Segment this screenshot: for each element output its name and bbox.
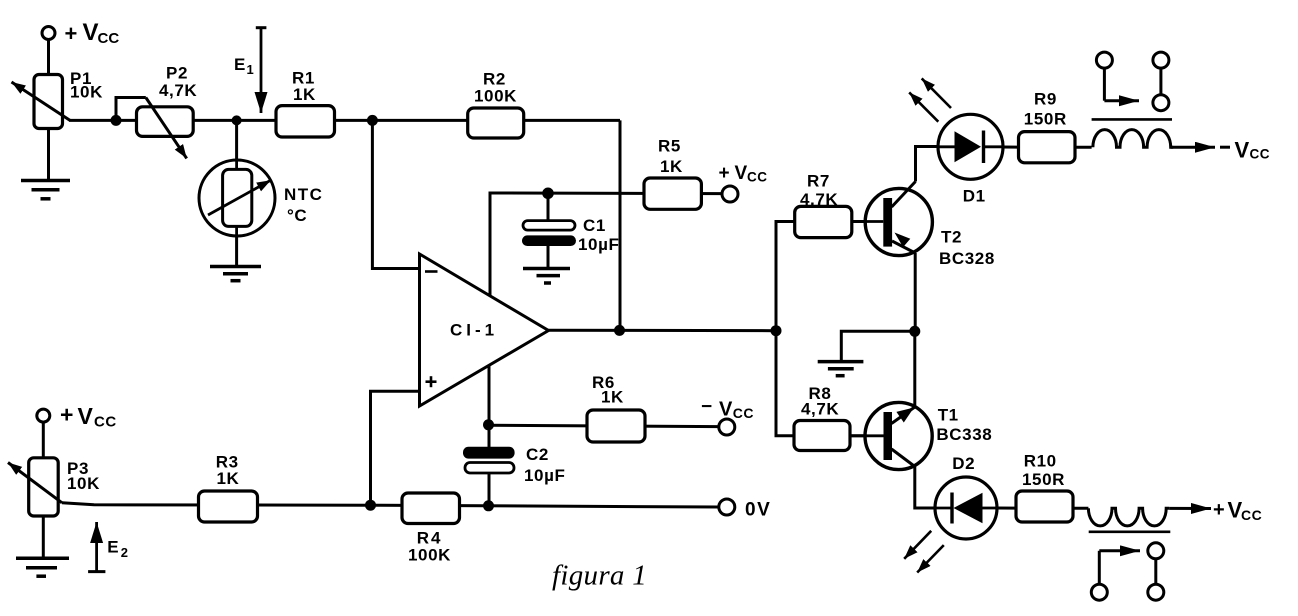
svg-text:10µF: 10µF: [578, 235, 620, 254]
svg-text:10K: 10K: [67, 474, 100, 493]
svg-text:V: V: [1235, 137, 1250, 162]
svg-text:150R: 150R: [1024, 109, 1067, 128]
svg-text:1K: 1K: [601, 388, 624, 407]
svg-text:CI-1: CI-1: [450, 321, 498, 340]
svg-text:°C: °C: [287, 206, 307, 225]
svg-text:V: V: [78, 403, 94, 429]
svg-text:4,7K: 4,7K: [800, 190, 838, 209]
svg-text:CC: CC: [1250, 147, 1271, 162]
svg-text:V: V: [83, 19, 99, 46]
svg-text:+: +: [65, 21, 78, 46]
svg-text:1: 1: [247, 62, 255, 77]
svg-text:150R: 150R: [1022, 470, 1065, 489]
svg-text:CC: CC: [733, 405, 754, 421]
svg-text:R9: R9: [1034, 89, 1057, 108]
svg-text:CC: CC: [747, 170, 768, 185]
svg-text:T1: T1: [938, 405, 959, 424]
svg-text:+: +: [719, 163, 730, 184]
svg-text:R5: R5: [658, 136, 681, 155]
svg-text:CC: CC: [1241, 507, 1262, 523]
svg-text:P2: P2: [166, 64, 188, 83]
svg-text:V: V: [719, 398, 733, 420]
svg-text:NTC: NTC: [284, 185, 323, 204]
svg-text:+: +: [1213, 499, 1225, 521]
svg-text:BC328: BC328: [939, 249, 995, 268]
svg-text:E: E: [107, 538, 119, 557]
svg-text:4,7K: 4,7K: [159, 81, 197, 100]
svg-text:D1: D1: [963, 187, 986, 206]
svg-text:CC: CC: [98, 30, 120, 47]
svg-text:T2: T2: [941, 227, 962, 246]
svg-text:C1: C1: [583, 216, 606, 235]
svg-text:0V: 0V: [745, 500, 771, 521]
svg-text:E: E: [234, 55, 246, 74]
svg-text:2: 2: [121, 545, 129, 560]
svg-text:100K: 100K: [474, 86, 517, 105]
svg-text:10K: 10K: [70, 83, 103, 102]
svg-text:R10: R10: [1024, 451, 1057, 470]
svg-text:+: +: [60, 402, 73, 428]
svg-text:R7: R7: [807, 172, 830, 191]
svg-text:figura 1: figura 1: [552, 560, 647, 592]
svg-text:10µF: 10µF: [524, 466, 566, 485]
svg-text:C2: C2: [526, 445, 549, 464]
svg-text:1K: 1K: [660, 157, 683, 176]
svg-text:−: −: [701, 397, 712, 418]
svg-text:100K: 100K: [408, 546, 451, 565]
svg-text:D2: D2: [952, 454, 975, 473]
svg-text:1K: 1K: [217, 469, 240, 488]
svg-text:1K: 1K: [293, 85, 316, 104]
svg-text:CC: CC: [94, 414, 117, 431]
svg-text:4,7K: 4,7K: [801, 399, 839, 418]
svg-text:V: V: [735, 163, 748, 184]
svg-text:BC338: BC338: [936, 425, 992, 444]
